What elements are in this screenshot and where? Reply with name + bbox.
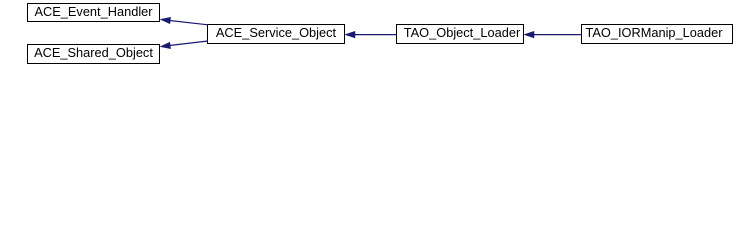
svg-text:ACE_Event_Handler: ACE_Event_Handler: [34, 4, 153, 19]
class box TAO_IORManip_Loader: [582, 25, 733, 44]
svg-text:TAO_Object_Loader: TAO_Object_Loader: [404, 25, 521, 40]
svg-text:TAO_IORManip_Loader: TAO_IORManip_Loader: [585, 25, 723, 40]
inheritance arrow ACE_Service_Object to ACE_Event_Handler: [160, 17, 208, 25]
class box ACE_Shared_Object: [28, 45, 160, 64]
inheritance arrow TAO_Object_Loader to ACE_Service_Object: [345, 31, 397, 38]
inheritance arrow TAO_IORManip_Loader to TAO_Object_Loader: [524, 31, 582, 38]
svg-text:ACE_Service_Object: ACE_Service_Object: [216, 25, 337, 40]
inheritance arrow ACE_Service_Object to ACE_Shared_Object: [160, 41, 208, 49]
class box ACE_Event_Handler: [28, 4, 160, 22]
class box ACE_Service_Object: [208, 25, 345, 44]
svg-text:ACE_Shared_Object: ACE_Shared_Object: [34, 45, 153, 60]
class box TAO_Object_Loader: [397, 25, 524, 44]
